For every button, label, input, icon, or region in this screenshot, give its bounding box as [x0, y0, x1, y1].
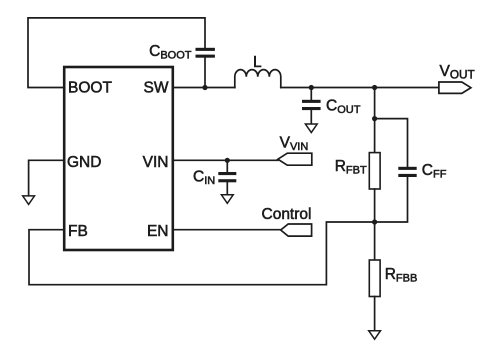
op-amp U1: [64, 67, 173, 250]
node COUT junction: [309, 85, 314, 90]
wire: [374, 297, 376, 331]
wire: [204, 58, 206, 88]
wire: [226, 160, 228, 172]
node divider junction: [372, 85, 377, 90]
wire: [375, 119, 408, 167]
wire: [28, 18, 205, 88]
wire: [173, 87, 235, 89]
wire: [226, 182, 228, 195]
capacitor CBOOT: [196, 48, 215, 58]
resistor RFBB: [369, 260, 380, 297]
wire: [173, 159, 278, 161]
node CIN junction: [225, 158, 230, 163]
wire: [173, 229, 281, 231]
svg-text:VIN: VIN: [143, 154, 169, 171]
ground: [23, 196, 35, 205]
capacitor COUT: [302, 100, 321, 110]
node Control flag: [281, 224, 312, 236]
svg-text:SW: SW: [144, 80, 169, 97]
wire: [310, 110, 312, 124]
node VVIN flag: [278, 153, 312, 165]
node VOUT flag: [439, 82, 471, 93]
svg-text:Control: Control: [262, 206, 312, 223]
svg-text:GND: GND: [67, 154, 101, 171]
wire: [374, 88, 376, 153]
node feedback junction: [372, 219, 377, 224]
capacitor CFF: [398, 167, 416, 177]
node CFF top junction: [372, 116, 377, 121]
node SW/CBOOT junction: [202, 85, 207, 90]
wire: [375, 177, 408, 222]
ground: [369, 331, 381, 340]
ground: [305, 124, 317, 133]
ground: [221, 195, 233, 204]
wire: [29, 222, 375, 285]
svg-text:EN: EN: [147, 223, 169, 240]
inductor L: [235, 70, 281, 88]
wire: [374, 189, 376, 260]
capacitor CIN: [218, 172, 236, 182]
wire: [29, 160, 64, 196]
svg-text:BOOT: BOOT: [68, 80, 112, 97]
svg-text:FB: FB: [68, 223, 88, 240]
wire: [310, 88, 312, 100]
svg-text:L: L: [253, 54, 262, 71]
resistor RFBT: [369, 153, 380, 189]
wire: [281, 87, 439, 89]
